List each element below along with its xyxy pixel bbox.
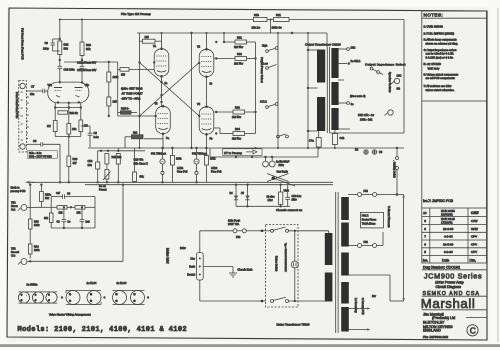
svg-text:2x 6550s: 2x 6550s <box>27 282 39 286</box>
wire: base group 3 links <box>113 291 150 305</box>
svg-text:100k: 100k <box>34 249 40 252</box>
svg-text:Circuit Diagram: Circuit Diagram <box>436 285 461 289</box>
svg-text:C13: C13 <box>88 159 93 163</box>
jack: speaker socket J2 <box>385 110 394 116</box>
capacitor C8 <box>81 126 99 147</box>
svg-text:File: JMP5002-26M: File: JMP5002-26M <box>423 335 449 339</box>
svg-text:1M: 1M <box>47 124 51 128</box>
svg-text:CJW: CJW <box>471 219 478 223</box>
svg-text:2k2 ½w: 2k2 ½w <box>234 62 243 66</box>
svg-text:1k5: 1k5 <box>121 74 126 77</box>
wire: grid drive <box>64 62 156 116</box>
svg-text:BLETCHLEY: BLETCHLEY <box>423 320 445 324</box>
capacitor C10 <box>58 66 76 82</box>
svg-text:2k2 ½w: 2k2 ½w <box>232 137 241 141</box>
wire: B+ sub rail <box>98 148 146 152</box>
capacitor C13 <box>88 151 100 183</box>
wire: screen rail <box>137 20 327 35</box>
notes panel <box>422 11 487 101</box>
resistor R32 screen <box>214 52 256 66</box>
svg-text:130k: 130k <box>113 75 119 79</box>
resistor R27 <box>133 148 145 182</box>
svg-text:Out: Out <box>11 208 15 211</box>
svg-text:to Preamp PCB: to Preamp PCB <box>361 298 364 315</box>
svg-text:230V T2A: 230V T2A <box>228 223 239 226</box>
valve base B7 <box>131 291 145 305</box>
wire: anode taps to transformer <box>291 32 318 148</box>
valve base B1 <box>18 292 29 303</box>
svg-text:Fuse Fail: Fuse Fail <box>211 171 222 174</box>
resistor R18 <box>58 111 78 115</box>
svg-text:LED1: LED1 <box>177 167 184 170</box>
svg-text:C12 w/Trem 88V: C12 w/Trem 88V <box>77 68 97 72</box>
svg-text:22n: 22n <box>30 92 35 96</box>
svg-text:V5b: V5b <box>85 84 90 87</box>
capacitors C6a C6b reservoir <box>263 157 290 167</box>
file reference <box>423 335 449 339</box>
svg-text:are off-PCB components: are off-PCB components <box>426 76 456 80</box>
svg-text:R22: R22 <box>64 43 69 47</box>
output transformer secondary winding <box>331 48 338 130</box>
wire: HT bus <box>88 147 404 149</box>
svg-text:R13: R13 <box>34 221 39 224</box>
svg-text:2x EL34: 2x EL34 <box>117 281 127 285</box>
svg-text:Date: Date <box>442 258 449 262</box>
svg-text:C11 w/Trem 88V: C11 w/Trem 88V <box>77 61 96 65</box>
resistor R9a <box>44 197 53 229</box>
note: MV not fitted <box>28 151 58 159</box>
resistor R31b <box>272 13 290 30</box>
svg-text:R34: R34 <box>235 127 240 131</box>
svg-text:Mains Switch: Mains Switch <box>275 256 279 272</box>
wire: valve interconnects <box>118 33 207 148</box>
svg-text:C4b: C4b <box>340 136 345 140</box>
svg-text:CPV: CPV <box>471 242 477 246</box>
resistor R28 <box>161 147 182 183</box>
resistor R34 screen <box>214 127 256 141</box>
capacitor C4b <box>332 130 344 148</box>
note: set bias point <box>121 87 143 101</box>
resistor R38 2k2 <box>132 131 144 139</box>
drawing number <box>422 265 487 270</box>
title: JCM900 Series <box>422 272 487 297</box>
svg-text:51k: 51k <box>86 47 91 51</box>
Marshall logo <box>421 296 487 311</box>
copyright symbol <box>467 325 478 336</box>
svg-text:C9: C9 <box>45 41 49 45</box>
svg-text:F38: F38 <box>364 241 369 244</box>
valve V5 ECC83 phase splitter <box>48 81 90 104</box>
resistor R20 <box>47 121 57 132</box>
svg-text:R15a: R15a <box>45 194 52 197</box>
svg-text:Full Send From Front PCB: Full Send From Front PCB <box>21 28 25 60</box>
capacitor C16 <box>285 185 302 207</box>
svg-text:C: C <box>470 325 476 335</box>
wire: cross-coupled grid lines <box>138 32 199 149</box>
connector: mains inlet <box>166 248 204 280</box>
svg-text:8Ω: 8Ω <box>397 87 400 91</box>
resistor R14 <box>28 244 40 259</box>
wire: HT+ top rail <box>59 19 404 21</box>
svg-text:100k: 100k <box>210 158 216 161</box>
resistor R39 1k5 <box>143 35 156 43</box>
switch: output power select <box>260 33 289 148</box>
rectifier diode D6 <box>230 184 239 207</box>
svg-text:10k: 10k <box>72 127 77 131</box>
wire: feedback line <box>29 184 124 263</box>
svg-text:Models: 2100, 2101, 4100, 4101: Models: 2100, 2101, 4100, 4101 & 4102 <box>18 326 188 334</box>
svg-text:Dwg Number: CDO192: Dwg Number: CDO192 <box>423 265 460 269</box>
svg-text:16/03/92: 16/03/92 <box>441 213 453 217</box>
svg-text:2x 50+50uF: 2x 50+50uF <box>276 160 290 163</box>
valve base B2 <box>32 292 43 303</box>
address block <box>423 312 487 332</box>
resistor R24 grid stopper <box>120 68 129 77</box>
svg-text:10: 10 <box>423 211 427 215</box>
rectifier diode D7 <box>241 184 250 207</box>
resistor R23 <box>80 42 91 56</box>
wire: neutral to switch <box>200 280 266 301</box>
note: heater fuses <box>360 212 383 228</box>
svg-text:AT THIS POINT: AT THIS POINT <box>122 92 143 96</box>
svg-text:Valve Master Wiring Arrangemen: Valve Master Wiring Arrangement <box>49 312 91 316</box>
revision table <box>422 199 487 263</box>
capacitor C3 <box>51 192 95 199</box>
capacitor C15 <box>134 157 149 165</box>
resistor R12 <box>70 197 95 229</box>
svg-text:shown on schema vol diag.: shown on schema vol diag. <box>426 41 459 45</box>
svg-text:C5: C5 <box>33 139 37 143</box>
svg-text:4: Output impedance select: 4: Output impedance select <box>424 48 457 52</box>
svg-text:unless stated otherwise.: unless stated otherwise. <box>426 88 455 92</box>
fuse F33 <box>200 220 257 253</box>
valve base diagram: group labels <box>27 281 127 286</box>
resistor R15a <box>40 184 52 208</box>
svg-text:F35: F35 <box>364 190 369 193</box>
svg-text:C10 100n: C10 100n <box>64 68 76 72</box>
svg-text:R37: 27k - 4w: R37: 27k - 4w <box>358 113 374 117</box>
svg-text:MVa - 0.1u: MVa - 0.1u <box>29 151 42 155</box>
svg-text:Iss.: Iss. <box>423 258 428 262</box>
svg-text:R33: R33 <box>235 106 240 110</box>
mains transformer core <box>336 192 338 333</box>
svg-text:Mains Transformer 75826: Mains Transformer 75826 <box>277 322 310 326</box>
svg-text:Output Transformer C3210: Output Transformer C3210 <box>305 43 341 47</box>
svg-text:Star Earth: Star Earth <box>277 171 289 174</box>
svg-text:1M: 1M <box>84 124 88 128</box>
switch: standby <box>393 147 399 196</box>
svg-text:Earth to: Earth to <box>11 186 21 190</box>
connector: power amp input <box>19 81 29 153</box>
svg-text:5: +B: BTCMD: 5: +B: BTCMD <box>424 62 441 66</box>
svg-text:To Heater Filaments: To Heater Filaments <box>387 206 390 228</box>
svg-text:17/10/91: 17/10/91 <box>441 221 453 225</box>
svg-text:L1 Secondary: L1 Secondary <box>354 298 357 314</box>
svg-text:F32 T500mA: F32 T500mA <box>192 152 207 156</box>
svg-text:with Class X: with Class X <box>134 161 149 165</box>
svg-text:LED2: LED2 <box>211 167 218 170</box>
svg-text:2k2: 2k2 <box>133 131 138 135</box>
svg-text:100k: 100k <box>34 224 40 227</box>
wire: secondary taps <box>338 45 365 129</box>
capacitor C1 <box>80 206 91 228</box>
svg-text:2a SEL1: 2a SEL1 <box>351 59 362 63</box>
svg-text:CPV: CPV <box>471 235 477 239</box>
svg-text:9-3-90: 9-3-90 <box>444 250 453 254</box>
svg-text:22k 1w: 22k 1w <box>252 26 261 30</box>
capacitor C4a <box>309 131 321 148</box>
mains transformer primary winding <box>325 231 333 302</box>
svg-text:Standby Switch: Standby Switch <box>393 162 396 179</box>
fuse F32 <box>192 148 207 171</box>
wire: heater filament feed <box>348 194 405 302</box>
svg-text:-38V TO -46V): -38V TO -46V) <box>121 97 140 101</box>
label: C11 C12 trem <box>77 61 97 72</box>
svg-text:250v: 250v <box>292 198 298 201</box>
svg-text:T6.3A 20mm: T6.3A 20mm <box>362 223 376 226</box>
LED2 <box>195 167 222 182</box>
svg-text:CPV: CPV <box>471 250 477 254</box>
svg-text:MVb - NOT FITTED: MVb - NOT FITTED <box>29 155 52 159</box>
resistor R31 screen <box>223 33 256 49</box>
svg-text:Heater Fuses: Heater Fuses <box>362 219 377 222</box>
svg-text:(MB+ SET BIAS: (MB+ SET BIAS <box>121 87 143 91</box>
wire: base group 1 links <box>18 292 63 303</box>
svg-text:3: Affects heap components: 3: Affects heap components <box>424 38 458 42</box>
fuse F31 <box>151 148 166 171</box>
heater transformer L1 secondary <box>341 295 376 332</box>
svg-text:R31: R31 <box>237 36 242 40</box>
svg-text:Line: Line <box>190 257 195 260</box>
wire: cathode network <box>54 103 82 157</box>
svg-text:100k - 16k: 100k - 16k <box>360 117 373 121</box>
svg-text:100k 4w: 100k 4w <box>272 26 282 30</box>
svg-text:High: High <box>262 43 268 47</box>
svg-text:JCM900 Series: JCM900 Series <box>424 272 482 281</box>
svg-text:R16: R16 <box>73 157 78 161</box>
capacitor C2 <box>57 206 71 228</box>
svg-text:R18 1k: R18 1k <box>70 111 79 115</box>
capacitor C12 <box>80 66 85 82</box>
chassis earth ground <box>203 267 253 278</box>
label: earth to preamp pcb <box>11 186 26 193</box>
preset P1 <box>99 164 111 192</box>
svg-text:220v: 220v <box>180 246 186 250</box>
resistor R22 <box>58 41 69 55</box>
wire: rectifier rail <box>210 148 318 158</box>
svg-text:R32: R32 <box>237 52 242 56</box>
label: HT to preamp <box>223 149 263 156</box>
svg-text:Marshall: Marshall <box>421 296 476 311</box>
lamp: mains indicator <box>291 230 298 303</box>
svg-text:C2W: C2W <box>471 211 479 215</box>
resistor R26 <box>116 154 120 183</box>
output transformer core <box>327 33 330 133</box>
svg-text:100p: 100p <box>43 47 49 51</box>
resistor R10 <box>41 206 75 215</box>
svg-text:HT to Preamp: HT to Preamp <box>224 151 242 155</box>
svg-text:SOL2: SOL2 <box>260 99 267 103</box>
svg-text:Neutral: Neutral <box>187 273 195 276</box>
capacitor C7 <box>29 85 48 96</box>
svg-text:C4a: C4a <box>309 139 314 143</box>
svg-text:(See note 4): (See note 4) <box>350 94 365 98</box>
resistor R19 <box>67 124 77 135</box>
switch: output impedance select <box>365 63 406 91</box>
svg-text:100k: 100k <box>176 158 182 161</box>
resistor R29 <box>195 147 216 183</box>
svg-text:7: All resistors are 1/2w: 7: All resistors are 1/2w <box>424 84 452 88</box>
capacitor C9 <box>43 39 55 51</box>
svg-text:100w Power Amp: 100w Power Amp <box>435 280 464 284</box>
capacitor C5 <box>29 139 60 182</box>
wire: anode feeds phase splitter <box>53 20 84 67</box>
svg-text:6: Unless stated components: 6: Unless stated components <box>424 73 459 77</box>
wire: base group 2 links <box>66 291 106 305</box>
svg-text:16Ω: 16Ω <box>397 74 402 78</box>
sidebar verticals <box>422 101 487 208</box>
svg-text:Preset: Preset <box>99 188 107 192</box>
svg-text:can be wired for 4 & 8R: can be wired for 4 & 8R <box>426 52 454 56</box>
resistor R35 <box>121 107 132 115</box>
jack: J5a direct out <box>11 202 41 212</box>
resistor R30 <box>252 13 268 30</box>
svg-text:2n2: 2n2 <box>86 220 91 223</box>
svg-text:C8: C8 <box>94 131 98 135</box>
svg-text:F31 T500mA: F31 T500mA <box>151 152 166 156</box>
valve base B6 <box>113 291 127 305</box>
svg-text:16-5-90: 16-5-90 <box>443 242 454 246</box>
svg-text:Earth: Earth <box>189 265 195 268</box>
svg-text:1: CV/5: SMD60: 1: CV/5: SMD60 <box>424 25 444 29</box>
svg-text:R14: R14 <box>34 246 39 249</box>
jack: J5b record out <box>11 248 30 265</box>
svg-text:Mains Inlet: Mains Inlet <box>166 248 170 264</box>
resistor R16 <box>67 156 78 182</box>
valve V2 EL34 <box>197 41 218 86</box>
jack: speaker socket J1 <box>388 72 400 93</box>
svg-text:2k2 ½w: 2k2 ½w <box>234 45 243 49</box>
svg-text:R23: R23 <box>86 43 91 47</box>
svg-text:VDR: VDR <box>284 189 289 192</box>
fuse F38 <box>348 232 383 248</box>
svg-text:1k5: 1k5 <box>113 100 118 104</box>
svg-text:NOTES:: NOTES: <box>424 13 444 18</box>
svg-text:1k5: 1k5 <box>145 35 150 39</box>
svg-text:0.1u: 0.1u <box>94 135 100 139</box>
svg-text:F33: F33 <box>236 236 241 239</box>
resistor R25 <box>105 154 122 165</box>
svg-text:ENGLAND: ENGLAND <box>423 329 441 333</box>
mains transformer heater secondaries <box>341 197 349 304</box>
fuse F35 <box>348 190 404 197</box>
svg-text:Out: Out <box>11 254 15 257</box>
wire: earth bus double <box>25 181 333 185</box>
svg-text:1/2w: 1/2w <box>268 199 273 202</box>
svg-text:Chassis Earth: Chassis Earth <box>238 269 254 272</box>
svg-text:Drn.: Drn. <box>470 258 476 262</box>
label: R37 <box>358 113 374 121</box>
resistor R17 bias feed <box>107 61 119 97</box>
svg-text:10u: 10u <box>88 163 93 167</box>
svg-text:V5a: V5a <box>48 84 53 87</box>
wire: output section boundary <box>330 20 404 134</box>
svg-text:2x EL34: 2x EL34 <box>87 281 97 285</box>
resistor R21 <box>79 120 88 132</box>
svg-text:Vol7: 0.3v: Vol7: 0.3v <box>428 67 440 71</box>
svg-text:Iss.7: JMP50C PCB: Iss.7: JMP50C PCB <box>423 199 454 203</box>
wire: screen bus <box>254 42 256 134</box>
svg-text:19-3-90: 19-3-90 <box>443 227 454 231</box>
svg-text:SKW: SKW <box>471 227 478 231</box>
switch: mains power <box>257 225 329 308</box>
svg-text:C15 47n: C15 47n <box>134 157 144 161</box>
valve V1 EL34 <box>153 45 169 85</box>
LED1 <box>161 167 188 182</box>
resistor R13 <box>28 184 40 245</box>
valve base B3 <box>46 292 57 303</box>
valve base B4 <box>66 291 80 305</box>
valve base B5 <box>87 291 101 305</box>
wire: rectifier bottom <box>236 205 290 207</box>
valve V3 EL34 <box>155 103 171 141</box>
svg-text:Type SR22A3FBBNN/R8/22V: Type SR22A3FBBNN/R8/22V <box>284 243 287 272</box>
svg-text:From Front Panel PCB: From Front Panel PCB <box>15 92 19 119</box>
svg-text:R35 0-: R35 0- <box>121 107 129 111</box>
svg-text:R30: R30 <box>254 13 259 17</box>
svg-text:F36.7:: F36.7: <box>362 215 369 218</box>
output transformer primary winding <box>317 50 325 132</box>
svg-text:128v Peak: 128v Peak <box>228 220 241 223</box>
svg-text:4u7: 4u7 <box>56 192 61 195</box>
svg-text:8 & 16R (ser) or 4 & 8o: 8 & 16R (ser) or 4 & 8o <box>426 55 454 59</box>
svg-text:Output Power Select: Output Power Select <box>260 57 264 83</box>
svg-text:4k7: 4k7 <box>73 161 78 165</box>
varistor VDR <box>267 184 289 207</box>
resistor R33 screen <box>214 106 256 120</box>
svg-text:Speaker Sockets: Speaker Sockets <box>388 72 392 93</box>
svg-text:preamp PCB: preamp PCB <box>11 189 26 193</box>
svg-text:Output Impedance Select: Output Impedance Select <box>365 63 406 67</box>
svg-text:F3n Type 2M Preamp: F3n Type 2M Preamp <box>121 12 151 16</box>
svg-text:82k: 82k <box>64 47 69 51</box>
valve V4 EL34 <box>197 103 218 141</box>
svg-text:R31: R31 <box>276 13 281 17</box>
svg-text:2k2 ½w: 2k2 ½w <box>232 115 241 119</box>
svg-text:500v: 500v <box>279 164 285 167</box>
svg-text:Chassis connect on: Chassis connect on <box>276 208 303 212</box>
svg-text:C7: C7 <box>31 85 35 89</box>
svg-text:4-9-90: 4-9-90 <box>444 235 453 239</box>
svg-text:Fuse Fail: Fuse Fail <box>177 171 188 174</box>
star earth <box>267 171 295 186</box>
svg-text:56k: 56k <box>140 175 145 179</box>
svg-text:2: PCB: JMP50C (1989B): 2: PCB: JMP50C (1989B) <box>424 31 455 35</box>
svg-text:16Ω: 16Ω <box>351 45 356 49</box>
resistor R36 bias <box>107 97 117 117</box>
wire: network bottom <box>51 227 95 229</box>
